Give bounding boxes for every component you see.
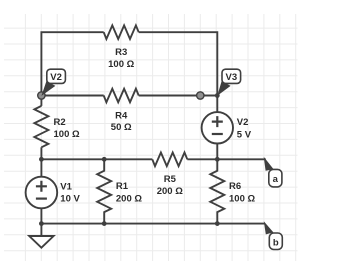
wire R2 bottom to mid rail <box>40 147 42 159</box>
svg-text:100 Ω: 100 Ω <box>54 129 80 140</box>
svg-text:a: a <box>273 174 279 185</box>
probe V2 pointer <box>41 81 55 96</box>
svg-text:5 V: 5 V <box>237 130 252 141</box>
resistor R2 <box>34 106 48 147</box>
probe node dot V2 <box>38 92 45 99</box>
junction node R6 bottom <box>215 221 220 226</box>
svg-text:R5: R5 <box>164 174 177 185</box>
svg-text:100 Ω: 100 Ω <box>229 194 255 205</box>
svg-text:V2: V2 <box>237 117 249 128</box>
probe node dot V3 <box>197 92 204 99</box>
resistor R6 <box>210 159 224 223</box>
svg-text:b: b <box>273 238 279 249</box>
junction node R1 bottom <box>102 221 107 226</box>
wire V1 bottom to ground <box>40 208 42 236</box>
junction node R2 bottom <box>39 157 44 162</box>
svg-text:100 Ω: 100 Ω <box>108 59 134 70</box>
svg-text:200 Ω: 200 Ω <box>116 194 142 205</box>
V2 minus sign <box>212 133 223 135</box>
junction node R6 top <box>215 157 220 162</box>
voltage source V1 <box>26 177 58 209</box>
V1 plus sign <box>36 181 47 192</box>
terminal a box <box>269 169 282 187</box>
terminal b pointer <box>264 221 274 234</box>
svg-text:50 Ω: 50 Ω <box>111 122 132 133</box>
voltage source V2 <box>202 112 233 143</box>
svg-text:R2: R2 <box>54 117 66 128</box>
wire V1 top <box>40 159 42 176</box>
resistor R3 <box>104 25 139 39</box>
junction node R5/R1 top <box>102 157 107 162</box>
resistor R4 <box>104 89 139 103</box>
junction node V3 attach <box>215 93 220 98</box>
wire mid rail left segment <box>41 158 152 160</box>
wire top right + right vertical down to V2 source <box>139 32 218 112</box>
V2 plus sign <box>212 116 223 127</box>
svg-text:R1: R1 <box>116 181 129 192</box>
wire mid rail right segment to terminal a stub <box>187 158 265 160</box>
probe V2 label box <box>47 69 66 83</box>
probe V3 pointer <box>217 81 230 96</box>
wire V2 source bottom to mid rail <box>216 144 218 160</box>
terminal a pointer <box>264 157 274 171</box>
probe V3 label box <box>222 69 241 83</box>
wire R4 to right vertical <box>139 95 218 97</box>
junction node V1 bottom <box>39 221 44 226</box>
svg-text:10 V: 10 V <box>60 193 80 204</box>
wire node V2 down to R2 <box>40 96 42 106</box>
resistor R5 <box>152 153 187 167</box>
resistor R1 <box>97 159 111 223</box>
wire node V2 to R4 <box>41 95 103 97</box>
wire left vertical (node V2 up to top-left corner) and top wire to R3 <box>41 32 103 95</box>
svg-text:200 Ω: 200 Ω <box>157 186 183 197</box>
V1 minus sign <box>36 198 47 200</box>
wire bottom rail <box>41 223 264 225</box>
svg-text:R6: R6 <box>229 181 241 192</box>
svg-text:V3: V3 <box>225 72 237 83</box>
svg-text:V1: V1 <box>60 181 72 192</box>
terminal b box <box>269 233 282 250</box>
ground <box>29 236 53 248</box>
svg-text:V2: V2 <box>50 72 62 83</box>
svg-text:R3: R3 <box>115 47 127 58</box>
svg-text:R4: R4 <box>115 110 128 121</box>
